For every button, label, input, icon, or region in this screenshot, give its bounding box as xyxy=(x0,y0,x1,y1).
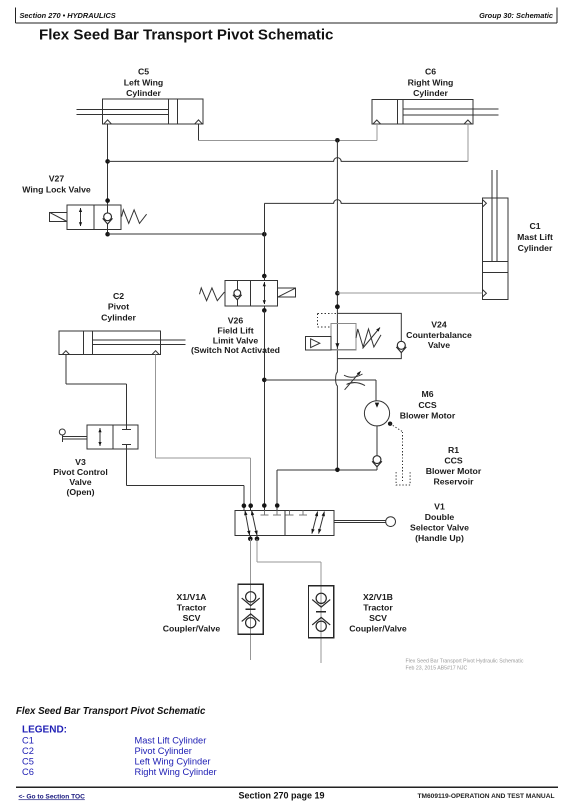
svg-text:SCV: SCV xyxy=(183,613,201,623)
svg-text:LEGEND:: LEGEND: xyxy=(22,725,67,736)
svg-text:Left Wing Cylinder: Left Wing Cylinder xyxy=(135,756,211,766)
svg-text:V27: V27 xyxy=(49,173,65,183)
svg-text:M6: M6 xyxy=(421,389,433,399)
svg-text:Pivot: Pivot xyxy=(108,302,129,312)
svg-text:Cylinder: Cylinder xyxy=(518,243,553,253)
svg-text:V3: V3 xyxy=(75,457,86,467)
svg-text:C5: C5 xyxy=(138,67,149,77)
svg-text:Right Wing: Right Wing xyxy=(408,77,454,87)
svg-text:Section 270 page 19: Section 270 page 19 xyxy=(238,790,324,800)
svg-text:Coupler/Valve: Coupler/Valve xyxy=(163,624,221,634)
svg-text:C6: C6 xyxy=(425,67,436,77)
svg-text:C2: C2 xyxy=(22,746,34,756)
svg-text:Flex Seed Bar Transport Pivot: Flex Seed Bar Transport Pivot Schematic xyxy=(16,706,206,717)
svg-text:Section 270 • HYDRAULICS: Section 270 • HYDRAULICS xyxy=(20,11,116,20)
svg-text:Limit Valve: Limit Valve xyxy=(213,335,259,345)
svg-text:C1: C1 xyxy=(22,735,34,745)
svg-text:V1: V1 xyxy=(434,502,445,512)
svg-text:(Handle Up): (Handle Up) xyxy=(415,533,464,543)
svg-text:Tractor: Tractor xyxy=(177,603,207,613)
svg-text:Coupler/Valve: Coupler/Valve xyxy=(349,624,407,634)
svg-text:C6: C6 xyxy=(22,767,34,777)
svg-text:Valve: Valve xyxy=(428,340,450,350)
svg-text:Cylinder: Cylinder xyxy=(126,88,161,98)
svg-text:X2/V1B: X2/V1B xyxy=(363,592,393,602)
svg-text:SCV: SCV xyxy=(369,613,387,623)
svg-text:C5: C5 xyxy=(22,756,34,766)
svg-text:Flex Seed Bar Transport Pivot: Flex Seed Bar Transport Pivot Hydraulic … xyxy=(406,659,524,665)
svg-text:CCS: CCS xyxy=(418,400,437,410)
svg-text:Double: Double xyxy=(425,512,455,522)
svg-text:(Switch Not Activated: (Switch Not Activated xyxy=(191,345,280,355)
svg-text:Blower Motor: Blower Motor xyxy=(426,466,482,476)
svg-text:(Open): (Open) xyxy=(67,487,95,497)
svg-text:Selector Valve: Selector Valve xyxy=(410,523,469,533)
svg-text:Mast Lift: Mast Lift xyxy=(517,232,553,242)
svg-text:R1: R1 xyxy=(448,445,459,455)
svg-text:Mast Lift Cylinder: Mast Lift Cylinder xyxy=(135,735,207,745)
svg-text:X1/V1A: X1/V1A xyxy=(177,592,208,602)
svg-text:V24: V24 xyxy=(431,319,447,329)
svg-text:Pivot Cylinder: Pivot Cylinder xyxy=(135,746,192,756)
svg-text:<- Go to Section TOC: <- Go to Section TOC xyxy=(19,793,86,800)
svg-text:Valve: Valve xyxy=(69,477,91,487)
svg-text:Feb 23, 2015 AB5#17 NJC: Feb 23, 2015 AB5#17 NJC xyxy=(406,666,468,672)
svg-text:Left Wing: Left Wing xyxy=(124,77,164,87)
svg-text:V26: V26 xyxy=(228,316,244,326)
svg-text:Right Wing Cylinder: Right Wing Cylinder xyxy=(135,767,217,777)
svg-text:Cylinder: Cylinder xyxy=(413,88,448,98)
svg-text:Blower Motor: Blower Motor xyxy=(400,410,456,420)
svg-text:CCS: CCS xyxy=(444,455,463,465)
svg-text:Counterbalance: Counterbalance xyxy=(406,330,472,340)
svg-text:Field Lift: Field Lift xyxy=(217,326,253,336)
svg-text:Reservoir: Reservoir xyxy=(433,476,474,486)
svg-text:C1: C1 xyxy=(529,221,540,231)
svg-text:Wing Lock Valve: Wing Lock Valve xyxy=(22,184,91,194)
svg-text:C2: C2 xyxy=(113,291,124,301)
svg-text:Cylinder: Cylinder xyxy=(101,313,136,323)
svg-text:Pivot Control: Pivot Control xyxy=(53,467,108,477)
svg-text:Tractor: Tractor xyxy=(363,603,393,613)
svg-text:TM609119-OPERATION AND TEST MA: TM609119-OPERATION AND TEST MANUAL xyxy=(417,793,554,800)
svg-text:Group 30: Schematic: Group 30: Schematic xyxy=(479,11,553,20)
svg-text:Flex Seed Bar Transport Pivot: Flex Seed Bar Transport Pivot Schematic xyxy=(39,26,333,43)
